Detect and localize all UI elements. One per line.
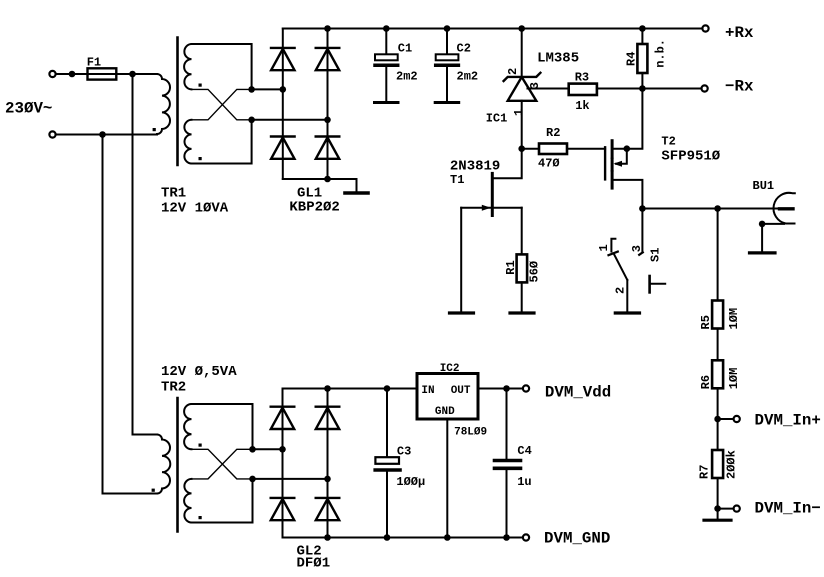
terminal pad DVM_In+ bbox=[734, 416, 740, 422]
GL2 diode D4 bbox=[316, 498, 340, 520]
svg-text:SFP951Ø: SFP951Ø bbox=[661, 149, 720, 165]
bridge GL1 column 1 wire bbox=[282, 29, 284, 180]
svg-text:BU1: BU1 bbox=[753, 179, 775, 193]
wire node A to bridge column 1 bbox=[252, 88, 283, 90]
capacitor C1 bbox=[385, 29, 387, 55]
wire BU1 shell tap bbox=[762, 223, 784, 225]
bridge GL2 column 2 wire bbox=[327, 389, 329, 538]
junction bbox=[503, 534, 510, 541]
svg-text:12V Ø,5VA: 12V Ø,5VA bbox=[161, 364, 237, 380]
TR2 primary winding bbox=[157, 435, 170, 494]
junction bbox=[280, 86, 287, 93]
TR2 secondary winding A bbox=[184, 404, 191, 449]
TR1 primary polarity mark bbox=[153, 128, 156, 131]
wire IC1 pin3 to R3 bbox=[528, 88, 569, 90]
junction secondary node A bbox=[248, 86, 255, 93]
transformer TR1 core bbox=[176, 38, 179, 166]
svg-text:2m2: 2m2 bbox=[457, 70, 479, 84]
ground BU1 bbox=[750, 251, 776, 254]
svg-text:R2: R2 bbox=[546, 126, 560, 140]
GL2 diode D3 bbox=[271, 498, 295, 520]
svg-text:+Rx: +Rx bbox=[725, 24, 754, 42]
wire down to TR2 primary bottom bbox=[103, 135, 158, 494]
reference diode IC1 LM385 bbox=[521, 29, 523, 77]
terminal pad DVM_GND bbox=[523, 534, 529, 540]
wire TR2 node B to GL2 column 2 bbox=[253, 478, 328, 480]
terminal pad DVM_In- bbox=[734, 506, 740, 512]
transistor T1 2N3819 bbox=[491, 173, 494, 215]
svg-text:DVM_In+: DVM_In+ bbox=[755, 412, 821, 430]
resistor R2 bbox=[518, 145, 525, 152]
TR1 secondary B polarity mark bbox=[199, 157, 202, 160]
GL2 diode D2 bbox=[316, 407, 340, 429]
svg-text:2: 2 bbox=[613, 287, 627, 294]
svg-text:DVM_GND: DVM_GND bbox=[544, 530, 610, 548]
wire input top to fuse bbox=[56, 73, 88, 75]
ground S1 bbox=[615, 311, 639, 314]
svg-text:R7: R7 bbox=[698, 465, 712, 479]
resistor R7 bbox=[717, 419, 719, 450]
svg-text:1k: 1k bbox=[575, 99, 589, 113]
connector BU1 bbox=[780, 207, 794, 210]
GL2 diode D1 bbox=[271, 407, 295, 429]
transistor T2 SFP9510 bbox=[604, 147, 606, 179]
TR1 secondary winding B bbox=[184, 120, 191, 164]
TR2 primary polarity mark bbox=[152, 489, 155, 492]
regulator IC2 78L09 bbox=[417, 374, 478, 420]
junction bbox=[324, 534, 331, 541]
ground R1 bbox=[510, 311, 534, 314]
GL1 diode D1 bbox=[271, 48, 295, 70]
junction bbox=[444, 25, 451, 32]
wire TR1 secondary B bottom bbox=[192, 120, 252, 164]
resistor R1 bbox=[517, 254, 528, 282]
svg-text:12V 1ØVA: 12V 1ØVA bbox=[161, 201, 229, 217]
svg-text:R6: R6 bbox=[699, 375, 713, 389]
terminal pad +Rx bbox=[702, 25, 708, 31]
wire crossover TR2 A-bottom to node B bbox=[192, 449, 253, 479]
svg-text:R1: R1 bbox=[504, 260, 518, 274]
transformer TR2 core bbox=[176, 398, 179, 532]
TR1 secondary A polarity mark bbox=[199, 84, 202, 87]
S1 actuator bbox=[648, 276, 651, 292]
svg-text:−Rx: −Rx bbox=[725, 78, 754, 96]
ground C2 bbox=[435, 101, 459, 104]
terminal pad input top bbox=[49, 71, 55, 77]
wire T1 source to R1 bbox=[521, 208, 523, 255]
svg-text:OUT: OUT bbox=[451, 385, 471, 397]
svg-text:F1: F1 bbox=[87, 56, 101, 70]
junction secondary node B bbox=[248, 117, 255, 124]
GL1 diode D3 bbox=[271, 137, 295, 159]
wire GL1 bottom rail bbox=[283, 178, 357, 180]
junction bbox=[279, 446, 286, 453]
svg-text:KBP2Ø2: KBP2Ø2 bbox=[289, 200, 339, 216]
svg-text:3: 3 bbox=[630, 245, 644, 252]
svg-text:TR2: TR2 bbox=[161, 380, 186, 396]
wire TR2 secondary B bottom bbox=[192, 479, 253, 523]
svg-text:TR1: TR1 bbox=[161, 186, 186, 202]
svg-text:1ØM: 1ØM bbox=[727, 368, 741, 390]
junction bbox=[503, 385, 510, 392]
svg-text:LM385: LM385 bbox=[537, 50, 579, 66]
svg-text:DVM_In−: DVM_In− bbox=[755, 500, 821, 518]
wire DVM_GND rail bbox=[283, 537, 523, 539]
TR1 secondary winding A bbox=[184, 44, 191, 89]
terminal pad input bottom bbox=[49, 131, 55, 137]
junction TR2 node A bbox=[249, 446, 256, 453]
junction bbox=[639, 85, 646, 92]
svg-text:IC2: IC2 bbox=[440, 363, 460, 375]
wire IC2 OUT to DVM_Vdd bbox=[478, 388, 523, 390]
terminal pad DVM_Vdd bbox=[523, 385, 529, 391]
svg-text:R3: R3 bbox=[575, 71, 589, 85]
svg-text:23ØV~: 23ØV~ bbox=[5, 100, 52, 118]
wire TR2 node A to GL2 column 1 bbox=[253, 448, 283, 450]
svg-text:2m2: 2m2 bbox=[396, 70, 418, 84]
switch S1 bbox=[641, 209, 643, 253]
GL1 diode D4 bbox=[316, 137, 340, 159]
wire node B to bridge column 2 bbox=[252, 119, 328, 121]
wire down to TR2 primary top bbox=[133, 74, 158, 435]
wire IC2 GND down bbox=[446, 419, 448, 538]
junction TR2 node B bbox=[249, 476, 256, 483]
svg-text:2: 2 bbox=[506, 68, 520, 75]
junction bbox=[444, 534, 451, 541]
svg-text:T2: T2 bbox=[661, 134, 675, 148]
resistor R3 bbox=[569, 84, 597, 95]
junction bbox=[324, 176, 331, 183]
svg-text:n.b.: n.b. bbox=[654, 39, 668, 68]
junction bbox=[69, 71, 76, 78]
svg-text:C1: C1 bbox=[398, 41, 412, 55]
wire GL2 top rail to IC2 IN bbox=[283, 388, 418, 390]
junction DVM_In+ bbox=[714, 416, 721, 423]
junction bbox=[324, 25, 331, 32]
wire crossover B-top to node A bbox=[192, 89, 252, 119]
svg-text:56Ø: 56Ø bbox=[528, 261, 542, 283]
wire crossover TR2 B-top to node A bbox=[192, 449, 253, 479]
svg-text:1: 1 bbox=[512, 109, 526, 116]
junction bbox=[324, 476, 331, 483]
junction bbox=[639, 205, 646, 212]
wire output node to divider bbox=[717, 209, 719, 301]
TR2 secondary A polarity mark bbox=[199, 444, 202, 447]
resistor R6 bbox=[712, 360, 723, 388]
svg-text:S1: S1 bbox=[649, 248, 663, 262]
junction bbox=[324, 117, 331, 124]
svg-text:47Ø: 47Ø bbox=[538, 157, 560, 171]
svg-text:T1: T1 bbox=[450, 173, 464, 187]
terminal pad -Rx bbox=[702, 85, 708, 91]
svg-text:R4: R4 bbox=[625, 52, 639, 66]
capacitor C3 bbox=[386, 389, 388, 458]
svg-text:C2: C2 bbox=[457, 41, 471, 55]
wire T1 gate to ground bbox=[460, 208, 462, 312]
wire R5 to R6 bbox=[717, 329, 719, 361]
ground DVM_In- bbox=[717, 509, 719, 519]
capacitor C2 bbox=[446, 29, 448, 55]
svg-text:1u: 1u bbox=[517, 475, 531, 489]
wire TR1 secondary A top bbox=[192, 44, 252, 89]
svg-text:C3: C3 bbox=[397, 445, 411, 459]
junction bbox=[639, 25, 646, 32]
resistor R5 bbox=[712, 301, 723, 329]
wire TR2 secondary A top bbox=[192, 404, 253, 449]
junction bbox=[383, 25, 390, 32]
svg-text:1: 1 bbox=[597, 244, 611, 251]
wire R6 to DVM_In+ node bbox=[717, 388, 719, 419]
junction DVM_In- bbox=[714, 505, 721, 512]
TR2 secondary winding B bbox=[184, 479, 191, 523]
svg-text:IN: IN bbox=[421, 385, 434, 397]
fuse F1 bbox=[88, 68, 117, 79]
svg-text:IC1: IC1 bbox=[486, 112, 508, 126]
svg-text:1ØM: 1ØM bbox=[727, 308, 741, 330]
junction bbox=[518, 25, 525, 32]
svg-text:C4: C4 bbox=[517, 444, 531, 458]
TR1 primary winding bbox=[157, 74, 170, 134]
wire R3 to -Rx bbox=[597, 88, 701, 90]
svg-text:78LØ9: 78LØ9 bbox=[454, 427, 487, 439]
junction bbox=[384, 534, 391, 541]
bridge GL2 column 1 wire bbox=[282, 389, 284, 538]
svg-text:DFØ1: DFØ1 bbox=[297, 556, 331, 572]
wire R7 to DVM_In- node bbox=[717, 478, 719, 509]
wire crossover A-bottom to node B bbox=[192, 89, 252, 119]
TR2 secondary B polarity mark bbox=[199, 516, 202, 519]
junction bbox=[384, 385, 391, 392]
svg-text:2ØØk: 2ØØk bbox=[725, 450, 739, 479]
wire input bottom to TR1 primary bbox=[56, 134, 157, 136]
svg-text:DVM_Vdd: DVM_Vdd bbox=[545, 383, 611, 401]
junction bbox=[99, 131, 106, 138]
resistor R4 bbox=[641, 29, 643, 45]
svg-text:R5: R5 bbox=[699, 315, 713, 329]
wire output node to BU1 bbox=[642, 208, 779, 210]
bridge GL1 column 2 wire bbox=[327, 29, 329, 180]
svg-text:1ØØµ: 1ØØµ bbox=[396, 475, 425, 489]
GL1 diode D2 bbox=[316, 48, 340, 70]
ground GL1 bbox=[356, 179, 358, 191]
junction bbox=[714, 205, 721, 212]
wire +V top rail bbox=[283, 28, 702, 30]
junction bbox=[129, 71, 136, 78]
ground T1 gate bbox=[450, 311, 474, 314]
ground C1 bbox=[375, 101, 399, 104]
junction bbox=[324, 385, 331, 392]
capacitor C4 bbox=[506, 389, 508, 459]
wire fuse to TR1 primary bbox=[116, 73, 157, 75]
svg-text:GND: GND bbox=[435, 406, 455, 418]
